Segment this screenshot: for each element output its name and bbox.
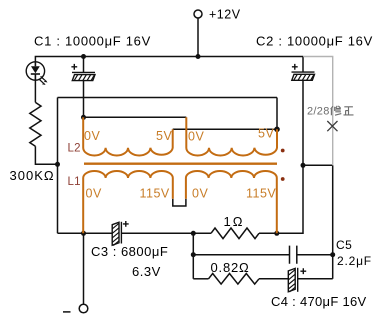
- transformer L2 winding: [83, 117, 277, 155]
- wire C2 branch upper: [302, 57, 304, 73]
- wire branch to lower rows: [192, 233, 194, 278]
- svg-text:0V: 0V: [84, 129, 100, 143]
- node rail minus: [81, 231, 86, 236]
- wire row C5 left: [193, 254, 289, 256]
- wire L2 parallel link 0V: [84, 116, 187, 118]
- node rail L1: [274, 231, 279, 236]
- minus sign: [63, 311, 71, 313]
- svg-text:C1 : 10000μF 16V: C1 : 10000μF 16V: [34, 34, 151, 49]
- wire right vertical: [332, 165, 334, 278]
- svg-text:6.3V: 6.3V: [132, 264, 161, 279]
- wire secondary top line: [58, 97, 278, 99]
- kanji 正: [344, 107, 354, 115]
- terminal minus: [79, 304, 88, 313]
- node L2 0V left: [81, 115, 86, 120]
- node 300K: [55, 162, 60, 167]
- svg-text:300KΩ: 300KΩ: [10, 168, 55, 183]
- kanji 修: [331, 106, 342, 115]
- wire row C4 right: [298, 278, 333, 280]
- resistor 1Ω: [211, 228, 259, 239]
- svg-text:115V: 115V: [140, 187, 170, 201]
- LED D1: [26, 62, 47, 85]
- svg-text:0V: 0V: [192, 187, 208, 201]
- resistor 0.82Ω: [209, 274, 259, 285]
- node row2 right: [330, 252, 335, 257]
- wire bottom rail right: [259, 165, 303, 233]
- svg-text:0V: 0V: [86, 187, 102, 201]
- svg-text:5V: 5V: [156, 129, 172, 143]
- wire C1 branch upper: [83, 57, 85, 73]
- svg-text:C3 : 6800μF: C3 : 6800μF: [91, 244, 168, 259]
- wire top bus: [35, 57, 303, 63]
- transformer core: [84, 162, 277, 164]
- node +12V: [196, 54, 201, 59]
- node L2 5V right: [274, 127, 280, 133]
- capacitor C4: [288, 268, 306, 292]
- capacitor C5: [290, 246, 297, 264]
- wire LED to resistor: [34, 80, 36, 102]
- svg-text:C4 : 470μF 16V: C4 : 470μF 16V: [271, 294, 367, 309]
- cross-out X mark: [327, 121, 337, 131]
- svg-text:2/28: 2/28: [307, 106, 330, 118]
- phase dot L2: [281, 149, 285, 153]
- wire bottom rail left: [58, 232, 113, 234]
- svg-text:2.2μF: 2.2μF: [337, 254, 372, 268]
- svg-text:L1: L1: [68, 176, 81, 188]
- capacitor C3: [112, 221, 129, 246]
- resistor 300KΩ: [30, 102, 41, 146]
- node row2 left: [191, 252, 196, 257]
- wire L2 parallel link 5V: [173, 128, 277, 130]
- wire C2 branch lower: [302, 81, 304, 166]
- wire row C4 left: [193, 278, 208, 280]
- wire row C4 mid: [259, 278, 288, 280]
- wire +12V stub: [197, 18, 199, 57]
- wire row C5 right: [297, 254, 333, 256]
- svg-text:1Ω: 1Ω: [224, 214, 245, 229]
- svg-text:115V: 115V: [246, 187, 276, 201]
- wire C1 branch lower: [83, 81, 85, 118]
- node rail branch: [191, 231, 196, 236]
- wire bottom rail mid: [122, 232, 211, 234]
- terminal +12V: [194, 10, 202, 18]
- capacitor C2: [292, 64, 315, 80]
- svg-text:C2 : 10000μF 16V: C2 : 10000μF 16V: [256, 34, 373, 49]
- wire 300K bottom: [35, 146, 57, 164]
- wire deleted gray (2/28 correction): [303, 57, 333, 166]
- capacitor C1: [71, 64, 95, 81]
- svg-text:C5: C5: [336, 238, 352, 252]
- svg-text:5V: 5V: [258, 127, 274, 141]
- node C1 top: [81, 54, 86, 59]
- transformer L1 winding: [83, 171, 277, 233]
- wire minus terminal drop: [83, 233, 85, 304]
- svg-text:0V: 0V: [188, 130, 204, 144]
- svg-text:+12V: +12V: [209, 8, 241, 22]
- wire C2 to right vertical: [303, 164, 333, 166]
- wire L2 right drop: [276, 98, 278, 130]
- svg-text:0.82Ω: 0.82Ω: [211, 260, 250, 275]
- phase dot L1: [281, 177, 285, 181]
- node C2 branch: [301, 163, 306, 168]
- wire L1 series jog: [173, 199, 186, 206]
- wire left box vertical: [57, 98, 59, 234]
- svg-text:L2: L2: [68, 143, 81, 155]
